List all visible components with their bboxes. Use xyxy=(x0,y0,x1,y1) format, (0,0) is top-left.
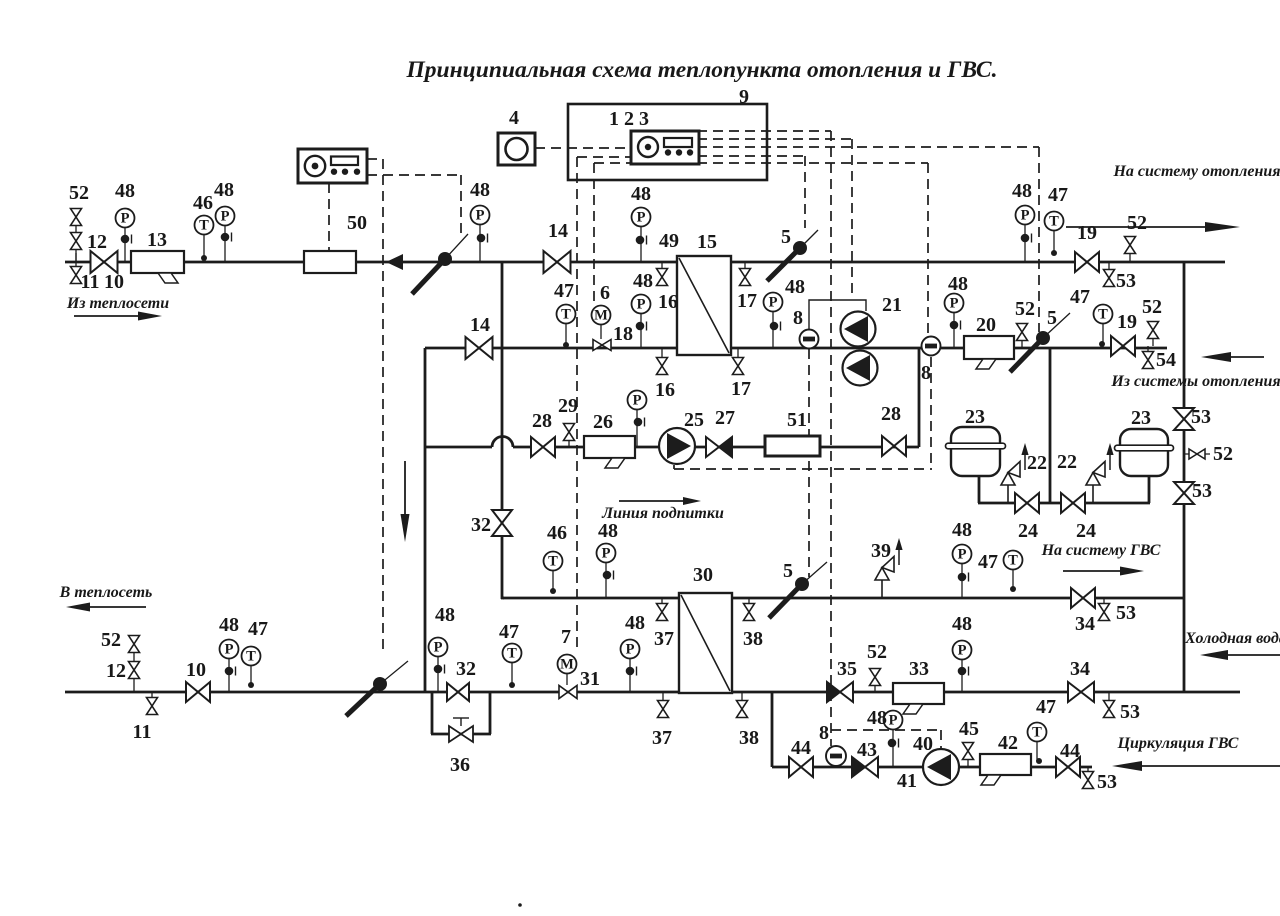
text Циркуляция ГВС xyxy=(1117,735,1239,752)
svg-text:48: 48 xyxy=(1012,180,1032,202)
label 19 xyxy=(1117,311,1137,333)
svg-text:52: 52 xyxy=(69,182,89,204)
svg-text:46: 46 xyxy=(547,522,567,544)
svg-text:44: 44 xyxy=(791,737,811,759)
svg-text:8: 8 xyxy=(819,722,829,744)
label 26 xyxy=(593,411,613,433)
wire DHW supply line xyxy=(732,597,1184,600)
svg-text:48: 48 xyxy=(867,707,887,729)
svg-text:53: 53 xyxy=(1191,406,1211,428)
label 10 xyxy=(186,659,206,681)
label 17 xyxy=(737,290,757,312)
svg-text:46: 46 xyxy=(193,192,213,214)
label 48 xyxy=(952,613,972,635)
svg-text:8: 8 xyxy=(921,362,931,384)
svg-text:12: 12 xyxy=(87,231,107,253)
svg-text:50: 50 xyxy=(347,212,367,234)
small valve 17 under supply main xyxy=(740,262,751,286)
label 52 xyxy=(101,629,121,651)
valve 44 right on circulation xyxy=(1056,757,1080,777)
filter 33 on cold line xyxy=(893,683,944,714)
svg-text:T: T xyxy=(507,646,517,662)
svg-text:48: 48 xyxy=(625,612,645,634)
small valve 17 under return xyxy=(733,348,744,375)
label 16 xyxy=(658,291,678,313)
svg-text:53: 53 xyxy=(1116,602,1136,624)
svg-text:29: 29 xyxy=(558,395,578,417)
svg-text:37: 37 xyxy=(652,727,672,749)
label 16 xyxy=(655,379,675,401)
svg-text:52: 52 xyxy=(1213,443,1233,465)
pressure gauge 48 before HX30 xyxy=(621,640,640,693)
svg-text:41: 41 xyxy=(897,770,917,792)
label 21 xyxy=(882,294,902,316)
label 36 xyxy=(450,754,470,776)
svg-text:20: 20 xyxy=(976,314,996,336)
wire DHW circulation line xyxy=(772,766,1092,769)
dashed control line to pumps 21 xyxy=(851,139,853,299)
flow arrow makeup line xyxy=(619,497,701,505)
svg-text:34: 34 xyxy=(1070,658,1090,680)
small valve 52 bottom-left stack xyxy=(129,636,140,693)
small valve 52 on trunk side xyxy=(1184,449,1210,459)
text На систему отопления xyxy=(1112,163,1280,180)
label 24 xyxy=(1076,520,1096,542)
stray dot xyxy=(518,903,522,907)
svg-text:47: 47 xyxy=(1070,286,1090,308)
svg-text:12: 12 xyxy=(106,660,126,682)
svg-text:На систему отопления: На систему отопления xyxy=(1112,163,1280,180)
label 52 xyxy=(1015,298,1035,320)
svg-text:10: 10 xyxy=(104,271,124,293)
label 42 xyxy=(998,732,1018,754)
svg-text:32: 32 xyxy=(471,514,491,536)
valve 34 on cold line xyxy=(1068,682,1094,702)
pressure gauge 48 top right xyxy=(1016,206,1035,263)
label 52 xyxy=(867,641,887,663)
label 33 xyxy=(909,658,929,680)
label 47 xyxy=(978,551,998,573)
label 8 xyxy=(819,722,829,744)
label 48 xyxy=(214,179,234,201)
label 40 xyxy=(913,733,933,755)
svg-text:48: 48 xyxy=(470,179,490,201)
label 38 xyxy=(739,727,759,749)
label 5 xyxy=(781,226,791,248)
label 22 xyxy=(1057,451,1077,473)
svg-text:18: 18 xyxy=(613,323,633,345)
safety valve 22 left xyxy=(1001,443,1029,503)
svg-text:T: T xyxy=(1032,725,1042,741)
svg-text:51: 51 xyxy=(787,409,807,431)
svg-text:47: 47 xyxy=(499,621,519,643)
label 47 xyxy=(1048,184,1068,206)
svg-text:16: 16 xyxy=(658,291,678,313)
svg-text:13: 13 xyxy=(147,229,167,251)
svg-text:27: 27 xyxy=(715,407,735,429)
svg-text:48: 48 xyxy=(219,614,239,636)
valve 19 on supply main xyxy=(1075,252,1099,272)
filter 42 on circulation xyxy=(980,754,1031,785)
svg-text:32: 32 xyxy=(456,658,476,680)
svg-text:24: 24 xyxy=(1076,520,1096,542)
wire tank header right xyxy=(1050,502,1150,505)
label 37 xyxy=(652,727,672,749)
circulation pump 40 xyxy=(923,749,959,785)
svg-text:34: 34 xyxy=(1075,613,1095,635)
wire heating return pipe xyxy=(425,347,1167,350)
svg-text:T: T xyxy=(199,218,209,234)
small valve 16 under return xyxy=(657,348,668,375)
label 48 xyxy=(952,519,972,541)
svg-text:5: 5 xyxy=(781,226,791,248)
label 10 xyxy=(104,271,124,293)
small valve 16 under supply main xyxy=(657,262,668,286)
thermometer 47 top right xyxy=(1045,212,1064,257)
svg-text:28: 28 xyxy=(532,410,552,432)
wire tank 23b outlet xyxy=(1148,475,1151,503)
label 27 xyxy=(715,407,735,429)
label 43 xyxy=(857,739,877,761)
label 22 xyxy=(1027,452,1047,474)
svg-text:52: 52 xyxy=(1015,298,1035,320)
valve 14 on supply main xyxy=(544,251,571,273)
svg-text:48: 48 xyxy=(598,520,618,542)
svg-text:Циркуляция ГВС: Циркуляция ГВС xyxy=(1117,735,1239,752)
dashed control line to control valve 5 top xyxy=(804,156,806,228)
text Из теплосети xyxy=(66,295,169,312)
svg-text:48: 48 xyxy=(435,604,455,626)
text Холодная вода xyxy=(1184,630,1280,647)
text В теплосеть xyxy=(59,584,153,601)
label 28 xyxy=(881,403,901,425)
svg-text:48: 48 xyxy=(214,179,234,201)
thermometer 46 xyxy=(195,216,214,262)
valve 19 on return xyxy=(1111,336,1135,356)
orifice device 50 on supply main xyxy=(304,251,356,273)
label 47 xyxy=(554,280,574,302)
svg-text:T: T xyxy=(1098,307,1108,323)
svg-text:7: 7 xyxy=(561,626,571,648)
svg-text:48: 48 xyxy=(952,613,972,635)
pressure gauge 48 with tap xyxy=(116,209,135,263)
svg-text:P: P xyxy=(434,640,443,656)
wire vertical from supply main down xyxy=(501,262,504,599)
svg-text:17: 17 xyxy=(737,290,757,312)
label 38 xyxy=(743,628,763,650)
svg-text:11: 11 xyxy=(133,721,152,743)
small valve 37 under bottom main xyxy=(658,692,669,718)
label 52 xyxy=(1213,443,1233,465)
flow arrow cold water inlet xyxy=(1200,650,1280,660)
wire tank 23a outlet xyxy=(978,476,981,503)
label 25 xyxy=(684,409,704,431)
svg-text:24: 24 xyxy=(1018,520,1038,542)
small valve 37 under DHW line xyxy=(657,598,668,621)
wire makeup riser xyxy=(918,348,921,447)
small valve 12 bottom-left stack xyxy=(129,662,140,679)
svg-text:T: T xyxy=(246,649,256,665)
label 52 xyxy=(69,182,89,204)
dashed enclosure around makeup unit xyxy=(674,449,932,469)
label 48 xyxy=(115,180,135,202)
valve 10 on supply main xyxy=(91,251,118,273)
label 44 xyxy=(1060,740,1080,762)
pressure gauge 48 on makeup xyxy=(628,391,647,448)
svg-text:16: 16 xyxy=(655,379,675,401)
svg-text:47: 47 xyxy=(248,618,268,640)
pressure gauge 48 second xyxy=(216,207,235,263)
small valve 53 after valve 34 xyxy=(1099,598,1110,621)
flow arrow circulation inlet xyxy=(1112,761,1280,771)
label 20 xyxy=(976,314,996,336)
svg-text:P: P xyxy=(1021,208,1030,224)
svg-text:52: 52 xyxy=(1142,296,1162,318)
svg-text:Холодная вода: Холодная вода xyxy=(1184,630,1280,647)
heat exchanger 15 xyxy=(677,256,731,355)
dashed control line to control valve near 50 xyxy=(460,175,462,237)
svg-text:48: 48 xyxy=(115,180,135,202)
small valve 11 below pipe xyxy=(71,253,82,284)
label 48 xyxy=(867,707,887,729)
svg-text:26: 26 xyxy=(593,411,613,433)
dashed bundle line 5 xyxy=(697,162,928,164)
wire supply main from heat network xyxy=(65,261,1225,264)
pressure gauge 48 on cold line xyxy=(953,641,972,693)
svg-text:T: T xyxy=(561,307,571,323)
heat exchanger 30 xyxy=(679,593,732,693)
svg-text:T: T xyxy=(1049,214,1059,230)
label 19 xyxy=(1077,222,1097,244)
svg-text:31: 31 xyxy=(580,668,600,690)
wire makeup line left part xyxy=(425,446,492,449)
control valve 5 on return right xyxy=(1010,313,1070,372)
control valve on bottom main xyxy=(346,661,408,716)
circulation regulator 8 xyxy=(826,746,846,766)
label 48 xyxy=(631,183,651,205)
label 53 xyxy=(1191,406,1211,428)
svg-text:M: M xyxy=(594,308,608,324)
svg-text:10: 10 xyxy=(186,659,206,681)
svg-text:17: 17 xyxy=(731,378,751,400)
dashed bundle line 2 xyxy=(697,138,852,140)
label 13 xyxy=(147,229,167,251)
wire tank header left xyxy=(978,502,1050,505)
label 53 xyxy=(1120,701,1140,723)
control valve near filter 50 xyxy=(412,234,468,294)
bypass valve 36 xyxy=(449,718,473,742)
small valve 52 top-left xyxy=(71,208,82,262)
pump 21 lower xyxy=(843,351,878,386)
svg-text:14: 14 xyxy=(548,220,568,242)
small valve 38 under bottom main xyxy=(737,692,748,718)
svg-text:38: 38 xyxy=(743,628,763,650)
valve 53 lower on trunk xyxy=(1174,482,1194,504)
svg-text:P: P xyxy=(626,642,635,658)
svg-text:35: 35 xyxy=(837,658,857,680)
controller device 1 2 3 xyxy=(631,131,699,164)
small valve 52 above supply end xyxy=(1125,237,1136,263)
svg-text:23: 23 xyxy=(1131,407,1151,429)
label 8 xyxy=(921,362,931,384)
safety valve 22 right xyxy=(1086,443,1114,503)
svg-text:P: P xyxy=(958,547,967,563)
label 6 xyxy=(600,282,610,304)
wire cold water feed to HX 30 xyxy=(503,597,679,600)
label 48 xyxy=(633,270,653,292)
svg-text:Из системы отопления: Из системы отопления xyxy=(1110,373,1280,390)
label 23 xyxy=(965,406,985,428)
small valve 12 top-left xyxy=(71,233,82,250)
svg-text:21: 21 xyxy=(882,294,902,316)
check valve 35 xyxy=(827,682,853,702)
flow arrow from heating system xyxy=(1201,352,1264,362)
wire makeup line right part xyxy=(513,446,919,449)
svg-text:53: 53 xyxy=(1192,480,1212,502)
svg-text:47: 47 xyxy=(978,551,998,573)
check valve 43 xyxy=(852,757,878,777)
label 1 2 3 xyxy=(609,108,649,130)
label 52 xyxy=(1142,296,1162,318)
label 35 xyxy=(837,658,857,680)
label 47 xyxy=(499,621,519,643)
dashed elbow to circulation pump 40 xyxy=(831,730,941,748)
expansion tank 23 left xyxy=(946,427,1006,476)
flow arrow to heat network xyxy=(66,603,146,612)
svg-text:P: P xyxy=(637,297,646,313)
label 39 xyxy=(871,540,891,562)
label 34 xyxy=(1075,613,1095,635)
label 53 xyxy=(1116,602,1136,624)
svg-text:28: 28 xyxy=(881,403,901,425)
label 5 xyxy=(1047,307,1057,329)
label 41 xyxy=(897,770,917,792)
pressure gauge 48 near control valve xyxy=(471,206,490,263)
valve 44 left on circulation xyxy=(789,757,813,777)
svg-text:38: 38 xyxy=(739,727,759,749)
wire bottom main (return / cold water) xyxy=(65,691,1240,694)
svg-text:P: P xyxy=(476,208,485,224)
flow arrow down on bypass xyxy=(401,461,410,542)
valve 28 right on makeup line xyxy=(882,436,906,456)
small valve 53 below supply end xyxy=(1104,262,1115,287)
pressure gauge 48 on DHW line xyxy=(953,545,972,599)
pressure gauge 48 on circulation xyxy=(884,711,903,768)
valve 32 on bottom main xyxy=(447,683,469,701)
label 48 xyxy=(1012,180,1032,202)
svg-text:48: 48 xyxy=(785,276,805,298)
label 14 xyxy=(470,314,490,336)
svg-text:40: 40 xyxy=(913,733,933,755)
label 24 xyxy=(1018,520,1038,542)
svg-text:8: 8 xyxy=(793,307,803,329)
label 53 xyxy=(1097,771,1117,793)
label 48 xyxy=(470,179,490,201)
orifice valve 18 xyxy=(593,340,611,351)
thermometer 47 on return xyxy=(557,305,576,349)
svg-text:6: 6 xyxy=(600,282,610,304)
svg-text:47: 47 xyxy=(1036,696,1056,718)
pressure regulator 8 left xyxy=(800,330,819,349)
label 23 xyxy=(1131,407,1151,429)
label 47 xyxy=(1070,286,1090,308)
valve 34 on DHW line xyxy=(1071,588,1095,608)
svg-text:Принципиальная схема теплопу: Принципиальная схема теплопункта отоплен… xyxy=(406,57,998,83)
label 4 xyxy=(509,107,519,129)
svg-text:T: T xyxy=(548,554,558,570)
flow meter 7 xyxy=(558,655,577,686)
svg-text:22: 22 xyxy=(1027,452,1047,474)
label 48 xyxy=(785,276,805,298)
controller device top-left xyxy=(298,149,367,183)
svg-text:45: 45 xyxy=(959,718,979,740)
dashed control line to control valve 5 right xyxy=(1038,147,1040,332)
orifice 51 on makeup line xyxy=(765,436,820,456)
label 9 xyxy=(739,86,749,108)
svg-text:30: 30 xyxy=(693,564,713,586)
svg-text:19: 19 xyxy=(1077,222,1097,244)
label 52 xyxy=(1127,212,1147,234)
controller cabinet 9 xyxy=(568,104,767,180)
label 17 xyxy=(731,378,751,400)
label 53 xyxy=(1116,270,1136,292)
svg-text:47: 47 xyxy=(1048,184,1068,206)
svg-text:T: T xyxy=(1008,553,1018,569)
svg-text:5: 5 xyxy=(783,560,793,582)
svg-text:44: 44 xyxy=(1060,740,1080,762)
svg-text:15: 15 xyxy=(697,231,717,253)
small valve 45 xyxy=(963,743,974,768)
label 46 xyxy=(193,192,213,214)
label 51 xyxy=(787,409,807,431)
filter 20 on return xyxy=(964,336,1014,369)
svg-text:На систему ГВС: На систему ГВС xyxy=(1041,542,1161,559)
wire regulator 8 to pump 21 linkage xyxy=(809,300,866,331)
svg-text:P: P xyxy=(958,643,967,659)
control valve 5 on DHW line xyxy=(769,562,827,618)
svg-text:P: P xyxy=(769,295,778,311)
svg-text:Линия подпитки: Линия подпитки xyxy=(601,505,724,522)
label 48 xyxy=(598,520,618,542)
small valve 54 below return end xyxy=(1143,346,1154,369)
dashed bundle line 1 xyxy=(697,130,831,132)
small valve 53 on cold line xyxy=(1104,692,1115,718)
svg-text:P: P xyxy=(950,296,959,312)
svg-text:M: M xyxy=(560,657,574,673)
label 18 xyxy=(613,323,633,345)
svg-text:53: 53 xyxy=(1116,270,1136,292)
label 49 xyxy=(659,230,679,252)
device 4 box xyxy=(498,133,535,165)
valve 24 right xyxy=(1061,493,1085,513)
pressure gauge 48 bottom-left xyxy=(220,640,239,693)
label 48 xyxy=(435,604,455,626)
svg-text:14: 14 xyxy=(470,314,490,336)
wire right trunk xyxy=(1183,262,1186,692)
pressure gauge 48 near valve 32 xyxy=(429,638,448,693)
control valve 5 on supply main xyxy=(767,230,818,281)
wire cold-to-circulation riser xyxy=(771,692,774,767)
svg-text:52: 52 xyxy=(101,629,121,651)
small valve 29 xyxy=(564,424,575,448)
valve 32 on makeup vertical xyxy=(492,510,512,536)
svg-text:В теплосеть: В теплосеть xyxy=(59,584,153,601)
pressure gauge 48 with tap 49 xyxy=(632,208,651,263)
label 50 xyxy=(347,212,367,234)
svg-text:Из теплосети: Из теплосети xyxy=(66,295,169,312)
dashed link device 4 to controller xyxy=(535,147,630,149)
svg-text:54: 54 xyxy=(1156,349,1176,371)
